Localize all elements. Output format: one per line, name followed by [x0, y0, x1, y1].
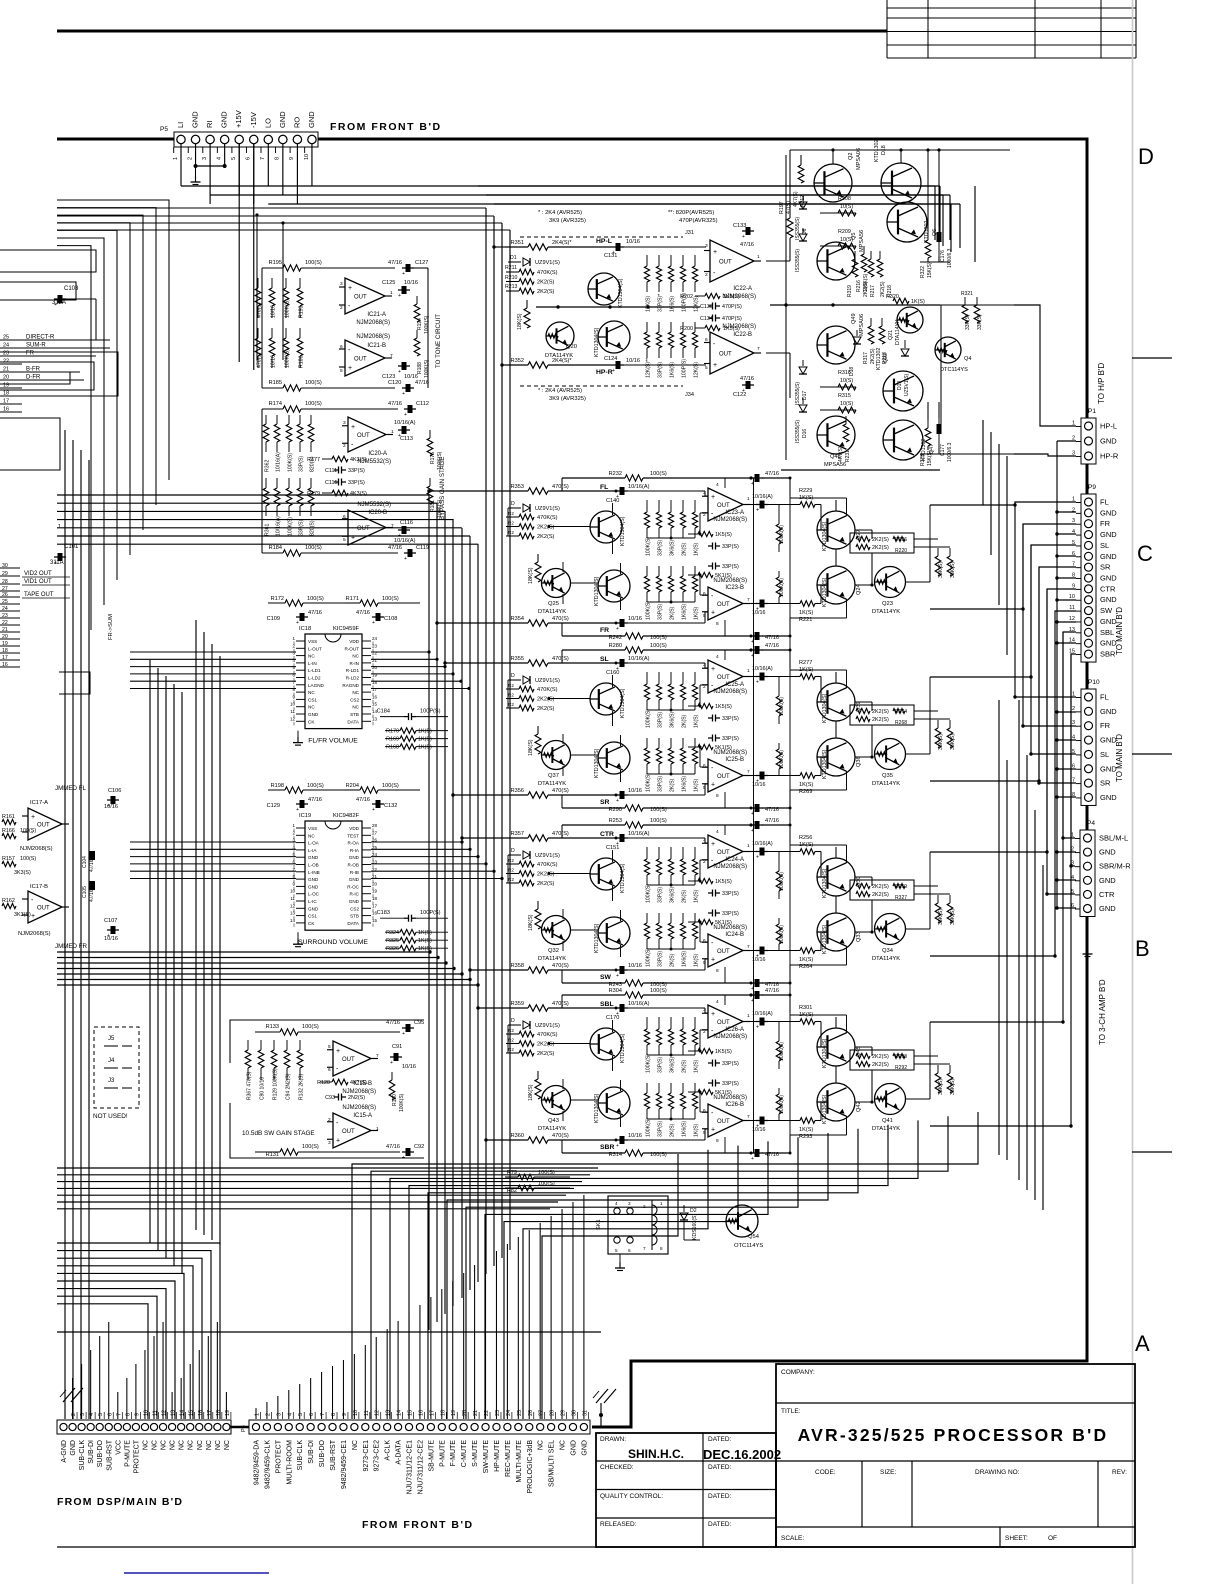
svg-text:100(S): 100(S) [305, 260, 322, 266]
svg-text:100P(S): 100P(S) [682, 359, 688, 378]
transistor Q32 DTA114YK [542, 916, 571, 945]
svg-text:10/16(A): 10/16(A) [394, 538, 416, 544]
svg-text:4K7(S): 4K7(S) [350, 1080, 367, 1086]
svg-text:L-OA: L-OA [308, 841, 320, 846]
svg-text:R194: R194 [417, 318, 423, 330]
svg-text:100(S): 100(S) [650, 635, 667, 641]
svg-text:18K(S): 18K(S) [528, 739, 534, 756]
svg-text:100K(S): 100K(S) [399, 1093, 405, 1112]
svg-text:SL: SL [1100, 750, 1109, 759]
svg-text:100K(S): 100K(S) [424, 359, 430, 378]
wire P9-13 [1012, 632, 1076, 1022]
svg-text:7: 7 [260, 157, 266, 160]
mid vertical harness [429, 208, 510, 1330]
svg-text:**: 820P(AVR525): **: 820P(AVR525) [668, 210, 714, 216]
svg-text:+: + [711, 610, 715, 617]
svg-text:33P(S): 33P(S) [722, 911, 739, 917]
svg-text:100K(S): 100K(S) [646, 773, 652, 792]
svg-text:+: + [751, 1156, 754, 1162]
svg-text:L-OC: L-OC [308, 892, 320, 897]
svg-text:GND: GND [1100, 574, 1117, 583]
svg-text:Q4: Q4 [964, 356, 971, 362]
svg-text:33K(S): 33K(S) [938, 562, 944, 578]
svg-text:+: + [711, 1011, 715, 1018]
resistor R216 100K(S) [863, 246, 865, 254]
node SBL input [505, 1007, 528, 1009]
svg-text:GND: GND [1100, 508, 1117, 517]
svg-text:20: 20 [372, 881, 378, 886]
P8 pin fanout wires [73, 1195, 584, 1419]
svg-text:5: 5 [343, 537, 346, 543]
svg-text:R355: R355 [511, 656, 524, 662]
resistor 33K(S) [937, 548, 939, 556]
svg-text:470(S): 470(S) [552, 616, 569, 622]
resistor 2K2(S) [506, 1043, 519, 1045]
transistor Q5 MPSA56 [817, 242, 855, 280]
resistor R177 4K3(S) [322, 458, 332, 460]
svg-text:TAPE OUT: TAPE OUT [24, 592, 54, 598]
resistor R168 1K(S) [385, 746, 400, 748]
svg-text:5: 5 [340, 368, 343, 374]
output cap 10/16(A) B [743, 1120, 757, 1122]
svg-text:OUT: OUT [717, 503, 730, 509]
svg-text:2: 2 [1072, 706, 1075, 712]
resistor 100K(S) to gnd [778, 1022, 780, 1041]
svg-text:SUB-RST: SUB-RST [106, 1439, 113, 1470]
svg-text:NC: NC [224, 1440, 231, 1450]
svg-text:33P(S): 33P(S) [658, 776, 664, 792]
svg-text:33P(S): 33P(S) [722, 1081, 739, 1087]
svg-text:10.5dB SW GAIN STAGE: 10.5dB SW GAIN STAGE [242, 1130, 315, 1137]
svg-text:HP-R: HP-R [596, 369, 613, 376]
svg-text:470K(S): 470K(S) [537, 270, 558, 276]
svg-text:5: 5 [98, 1413, 104, 1416]
svg-text:VCC: VCC [115, 1440, 122, 1455]
svg-text:100K(S): 100K(S) [779, 697, 785, 716]
svg-text:3: 3 [628, 1201, 631, 1206]
node CTR input [505, 837, 528, 839]
svg-text:OF: OF [1048, 1535, 1057, 1542]
farm bottom rail [647, 884, 695, 886]
svg-text:KTD1302: KTD1302 [874, 140, 880, 162]
svg-text:47/16: 47/16 [386, 1144, 400, 1150]
svg-text:LI: LI [176, 122, 185, 128]
svg-text:GND: GND [570, 1440, 577, 1456]
svg-text:5: 5 [705, 365, 708, 371]
svg-text:D1: D1 [510, 255, 517, 261]
svg-text:R-IB: R-IB [350, 870, 359, 875]
resistor 33K(S) second [949, 548, 951, 556]
svg-text:KTD1304(S): KTD1304(S) [822, 749, 828, 779]
svg-text:10/16(A): 10/16(A) [752, 666, 773, 672]
svg-text:+: + [616, 1143, 619, 1149]
cap C129 47/16 [300, 800, 305, 808]
svg-text:10/16: 10/16 [104, 936, 118, 942]
blue footer mark [124, 1572, 269, 1574]
svg-text:P-MUTE: P-MUTE [439, 1440, 446, 1467]
svg-text:2K2(S): 2K2(S) [872, 717, 889, 723]
svg-text:1K6(S): 1K6(S) [682, 604, 688, 620]
resistor R212 4K7(S) [800, 155, 802, 165]
svg-text:NC: NC [197, 1440, 204, 1450]
bias network resistor B [646, 1083, 648, 1093]
svg-text:VDD: VDD [349, 639, 359, 644]
svg-text:GND: GND [308, 855, 319, 860]
bias network resistor B [694, 566, 696, 576]
svg-text:R360: R360 [511, 1133, 524, 1139]
svg-text:NJM2068(S): NJM2068(S) [713, 517, 747, 523]
svg-text:+: + [398, 293, 401, 299]
svg-text:33K(S): 33K(S) [977, 314, 983, 330]
svg-text:5: 5 [231, 157, 237, 160]
svg-text:R322: R322 [920, 266, 926, 278]
zone tick D/C [1132, 357, 1172, 359]
svg-text:100K(S): 100K(S) [646, 1054, 652, 1073]
svg-text:J34: J34 [685, 392, 694, 398]
bias network resistor B [670, 1083, 672, 1093]
svg-text:1K(S): 1K(S) [911, 299, 925, 305]
svg-text:4K3(S): 4K3(S) [350, 457, 367, 463]
svg-text:Q34: Q34 [882, 948, 894, 954]
svg-text:+: + [616, 973, 619, 979]
svg-text:Q35: Q35 [882, 773, 893, 779]
transistor KTD1304(S) output A [817, 858, 855, 896]
wire to P4 pins [1063, 632, 1075, 838]
svg-text:30: 30 [2, 563, 8, 569]
svg-text:20: 20 [462, 1410, 468, 1416]
svg-text:NC: NC [352, 1440, 359, 1450]
svg-text:SURROUND VOLUME: SURROUND VOLUME [298, 939, 368, 946]
transistor KTD1304(S) A [590, 1028, 622, 1060]
svg-text:C129: C129 [267, 803, 280, 809]
svg-text:P4: P4 [1087, 820, 1095, 827]
svg-text:22: 22 [2, 620, 8, 626]
svg-text:10: 10 [1069, 594, 1075, 600]
svg-text:VID2 OUT: VID2 OUT [24, 571, 52, 577]
svg-text:FR: FR [600, 627, 609, 634]
feedback cap 33P(S) [708, 717, 713, 719]
svg-text:1: 1 [391, 429, 394, 435]
bias network resistor [694, 1017, 696, 1029]
transistor KTD1304(S) A [590, 858, 622, 890]
svg-text:100K(S): 100K(S) [646, 601, 652, 620]
svg-text:33P(S): 33P(S) [722, 736, 739, 742]
svg-text:Q23: Q23 [882, 601, 893, 607]
svg-text:33K(S): 33K(S) [938, 734, 944, 750]
wire P9-5 [1012, 545, 1076, 677]
right harness verticals [1012, 305, 1076, 1128]
svg-text:FL/FR VOLMUE: FL/FR VOLMUE [308, 738, 358, 745]
transistor KTD1304(S) output B [817, 1083, 855, 1121]
svg-text:+: + [713, 362, 717, 369]
svg-text:DATED:: DATED: [708, 1521, 732, 1528]
svg-text:10/16: 10/16 [626, 358, 640, 364]
svg-text:NJM2068(S): NJM2068(S) [342, 1105, 376, 1111]
svg-text:OUT: OUT [717, 602, 730, 608]
SW gain outer wires [230, 1020, 424, 1063]
svg-text:OUT: OUT [357, 526, 370, 532]
node SL input [505, 662, 528, 664]
svg-text:FROM FRONT B'D: FROM FRONT B'D [362, 1519, 474, 1531]
rail resistor R304 100(S) [562, 994, 625, 996]
svg-text:TO H/P B'D: TO H/P B'D [1097, 363, 1106, 404]
svg-text:+: + [612, 368, 615, 374]
svg-text:100K(S): 100K(S) [779, 1042, 785, 1061]
svg-text:R316: R316 [838, 370, 851, 376]
svg-text:R2: R2 [508, 693, 514, 698]
svg-text:26: 26 [2, 592, 8, 598]
DTA stubs [562, 1079, 564, 1089]
transistor KTD1304(S) output B [817, 913, 855, 951]
svg-text:C133: C133 [733, 223, 746, 229]
resistor R204 100(S) [345, 789, 360, 791]
svg-text:2K4(S)*: 2K4(S)* [552, 358, 572, 364]
transistor D18 KTD1302 [881, 163, 921, 203]
bus lines to mid harness [57, 207, 486, 209]
svg-text:IC25-A: IC25-A [725, 682, 744, 688]
svg-text:R274: R274 [895, 709, 907, 715]
bias network resistor [682, 672, 684, 684]
exit wire A [930, 504, 1012, 506]
cap C105 47/16 [89, 881, 95, 890]
svg-text:MPSA06: MPSA06 [859, 314, 865, 336]
svg-text:100K(S): 100K(S) [285, 299, 291, 318]
resistor pair 2K2(S) R298/R292 [850, 1050, 914, 1070]
svg-text:R188: R188 [417, 362, 423, 374]
resistor R211 470K(S) [506, 271, 519, 273]
svg-text:1: 1 [376, 1126, 379, 1132]
svg-text:3K3(S): 3K3(S) [14, 912, 31, 918]
svg-text:2K4(S)*: 2K4(S)* [552, 240, 572, 246]
wire to P10 [1015, 696, 1076, 697]
svg-text:R133: R133 [266, 1024, 279, 1030]
svg-text:NC: NC [352, 690, 359, 695]
page edge line [1132, 0, 1134, 1584]
Q output A collector stub [846, 1015, 848, 1033]
diode D19 UZ5V1(S) [904, 340, 906, 348]
svg-text:33P(S)*: 33P(S)* [658, 294, 664, 312]
svg-text:SBL/M-L: SBL/M-L [1099, 834, 1128, 843]
svg-text:IC23-A: IC23-A [725, 510, 744, 516]
svg-text:P-MUTE: P-MUTE [124, 1440, 131, 1467]
Q output B emitter stub [846, 946, 848, 965]
svg-text:L-IA: L-IA [308, 848, 317, 853]
svg-text:7: 7 [643, 1246, 646, 1251]
svg-text:KTD1304(S): KTD1304(S) [620, 863, 626, 893]
svg-text:QUALITY CONTROL:: QUALITY CONTROL: [600, 1493, 663, 1500]
svg-text:CK: CK [308, 921, 315, 926]
Q output B emitter stub [846, 599, 848, 618]
svg-text:NC: NC [560, 1440, 567, 1450]
bottom-left bus [57, 950, 598, 1419]
svg-text:L-LD1: L-LD1 [308, 668, 321, 673]
svg-text:+: + [31, 913, 35, 920]
svg-text:1K6(S): 1K6(S) [682, 776, 688, 792]
svg-text:6: 6 [703, 591, 706, 597]
svg-text:33K(S): 33K(S) [950, 562, 956, 578]
right harness extra verticals [1019, 700, 1043, 1210]
exit wire B [930, 608, 1012, 610]
svg-text:R177: R177 [307, 457, 320, 463]
op-amp IC15-A NJM2068(S) [333, 1113, 371, 1148]
svg-text:COMPANY:: COMPANY: [781, 1369, 815, 1376]
KTD A stubs [612, 850, 614, 862]
svg-text:R259: R259 [895, 884, 907, 890]
transistor KTD1304(S) HP B [598, 321, 630, 353]
svg-text:IC18: IC18 [299, 626, 311, 632]
svg-text:312A: 312A [52, 300, 66, 306]
svg-text:IC21-B: IC21-B [367, 343, 386, 349]
P5 pin wires [181, 144, 960, 370]
cap C112 47/16 [408, 405, 413, 413]
svg-text:DTA114YK: DTA114YK [872, 1126, 900, 1132]
svg-text:8: 8 [716, 1138, 719, 1144]
svg-text:R181: R181 [430, 500, 436, 512]
svg-text:RI: RI [205, 121, 214, 129]
svg-text:UZ5V1(S): UZ5V1(S) [904, 373, 910, 396]
svg-text:8: 8 [716, 968, 719, 974]
Q output B emitter stub [846, 1116, 848, 1135]
svg-text:R216: R216 [856, 280, 862, 292]
bias network resistor B [658, 566, 660, 576]
transistor KTD1304(S) B [598, 1087, 630, 1119]
svg-text:24: 24 [372, 852, 378, 857]
svg-text:NC: NC [308, 654, 315, 659]
svg-text:GND: GND [1100, 530, 1117, 539]
resistor 2K2(S) [506, 882, 519, 884]
svg-text:GND: GND [1100, 793, 1117, 802]
svg-text:24: 24 [506, 1410, 512, 1416]
svg-text:2: 2 [340, 305, 343, 311]
resistor 18K(S) [537, 726, 539, 734]
HP farm [644, 255, 699, 378]
svg-text:2K2(S): 2K2(S) [537, 1042, 555, 1048]
svg-text:+: + [616, 626, 619, 632]
svg-text:33K(S): 33K(S) [938, 909, 944, 925]
cap C134 470P(S) [708, 317, 713, 319]
transistor KTD1304(S) output B [817, 566, 855, 604]
cap C116 10/16(A) [402, 526, 407, 534]
svg-text:NOT USED!: NOT USED! [93, 1113, 128, 1120]
exit wire A [930, 676, 1012, 678]
transistor KTD1304(S) HP A [588, 273, 620, 305]
svg-text:NC: NC [170, 1440, 177, 1450]
rail cap 47/16 [755, 646, 760, 654]
svg-text:BYPASS GAIN STAGE: BYPASS GAIN STAGE [439, 457, 446, 520]
svg-text:A: A [1135, 1331, 1150, 1356]
svg-text:13: 13 [372, 716, 378, 721]
transistor Q49 MPSA06 [817, 326, 855, 364]
svg-text:C104: C104 [82, 856, 88, 868]
diode D2 KDS160(S) [683, 1205, 685, 1212]
svg-text:FR->SUM: FR->SUM [108, 614, 114, 640]
svg-text:R175: R175 [430, 452, 436, 464]
cap C133 47/16 [746, 227, 751, 235]
svg-text:C132: C132 [384, 803, 397, 809]
svg-text:ISS355(S): ISS355(S) [795, 249, 801, 272]
svg-text:DTA114YK: DTA114YK [538, 609, 566, 615]
transistor KTD1304(S) B [598, 742, 630, 774]
feedback resistor 5K1(S) B [688, 921, 698, 923]
wire to P10 [1031, 753, 1076, 754]
wire stack to base A [549, 698, 590, 700]
svg-text:18K(S): 18K(S) [528, 1084, 534, 1101]
svg-text:Q43: Q43 [548, 1118, 559, 1124]
svg-text:16: 16 [418, 1410, 424, 1416]
svg-text:R208: R208 [838, 196, 851, 202]
svg-text:NJM2068(S): NJM2068(S) [356, 320, 390, 326]
svg-text:6: 6 [107, 1413, 113, 1416]
feedback cap 33P(S) [708, 892, 713, 894]
svg-text:9482/9459-CE1: 9482/9459-CE1 [341, 1440, 348, 1489]
svg-text:R2: R2 [508, 858, 514, 863]
KTD B stubs [620, 1080, 622, 1091]
cap C111 33P(S) [334, 469, 339, 471]
svg-text:GND: GND [308, 906, 319, 911]
svg-text:2K2(S): 2K2(S) [537, 697, 555, 703]
svg-text:Q22: Q22 [883, 353, 889, 363]
svg-text:NC: NC [206, 1440, 213, 1450]
transistor KTD1304(S) B [598, 570, 630, 602]
svg-text:IC25-B: IC25-B [725, 757, 744, 763]
svg-text:100(S): 100(S) [307, 783, 324, 789]
svg-text:33K(S): 33K(S) [950, 734, 956, 750]
svg-text:18: 18 [372, 896, 378, 901]
svg-text:KTD1304(S): KTD1304(S) [594, 576, 600, 606]
svg-text:R197: R197 [779, 201, 785, 214]
connector P1 [1072, 408, 1119, 464]
output cap C 10/16(A) [743, 1021, 757, 1023]
svg-text:SBL: SBL [1100, 628, 1114, 637]
svg-text:SUB-DI: SUB-DI [308, 1440, 315, 1464]
svg-text:DEC.16.2002: DEC.16.2002 [703, 1447, 781, 1462]
svg-text:4: 4 [216, 157, 222, 160]
resistor R179 4K3(S) [322, 492, 332, 494]
svg-text:3K9 (AVR325): 3K9 (AVR325) [549, 218, 586, 224]
svg-text:IC26-B: IC26-B [725, 1102, 744, 1108]
svg-text:13: 13 [171, 1410, 177, 1416]
svg-text:Q49: Q49 [851, 313, 857, 324]
svg-text:6: 6 [703, 1108, 706, 1114]
svg-text:UZ9V1(S): UZ9V1(S) [535, 506, 560, 512]
svg-text:R2: R2 [508, 1047, 514, 1052]
transistor Q25 DTA114YK [542, 569, 571, 598]
svg-text:GND: GND [349, 855, 360, 860]
svg-text:C127: C127 [415, 260, 428, 266]
svg-text:1: 1 [255, 1413, 261, 1416]
svg-text:FR: FR [1100, 721, 1111, 730]
svg-text:IC22-A: IC22-A [733, 286, 752, 292]
svg-text:STB: STB [350, 712, 359, 717]
farm IC21 A [255, 278, 304, 368]
svg-text:18K(S): 18K(S) [528, 567, 534, 584]
svg-text:NJM2068(S): NJM2068(S) [713, 864, 747, 870]
Q output A collector stub [846, 670, 848, 688]
wire output A to harness [855, 1046, 872, 1048]
cap C122 47/16 [746, 381, 751, 389]
wire output A to harness [855, 529, 872, 531]
svg-text:33P(S): 33P(S) [722, 716, 739, 722]
svg-text:7: 7 [747, 944, 750, 950]
svg-text:R367 470(S): R367 470(S) [247, 1071, 253, 1100]
node FL input [505, 490, 528, 492]
svg-text:+: + [402, 271, 405, 277]
svg-text:KTD1302: KTD1302 [924, 221, 930, 243]
svg-text:SHEET:: SHEET: [1005, 1535, 1028, 1542]
svg-text:100(S): 100(S) [650, 471, 667, 477]
svg-text:470(S): 470(S) [552, 1133, 569, 1139]
svg-text:12: 12 [1069, 616, 1075, 622]
